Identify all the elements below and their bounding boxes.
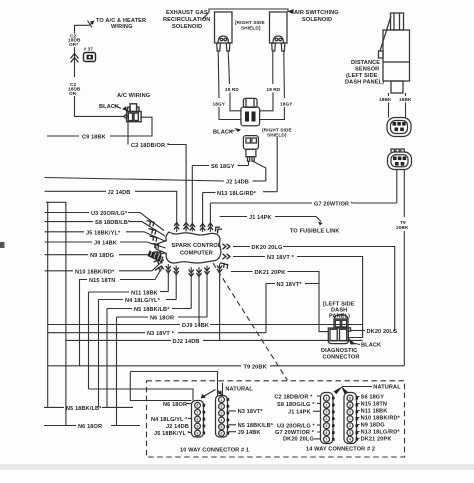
svg-text:1: 1 [349, 417, 351, 421]
svg-text:DISTANCE: DISTANCE [351, 60, 380, 66]
svg-text:N15 18TN: N15 18TN [361, 402, 387, 408]
svg-text:J5 18BK/YL *: J5 18BK/YL * [154, 431, 191, 437]
svg-text:J9 14BK: J9 14BK [238, 430, 261, 436]
svg-text:S6 18GY: S6 18GY [211, 164, 235, 170]
svg-text:DK21 20PK: DK21 20PK [255, 270, 286, 276]
svg-text:SHIELD]: SHIELD] [241, 26, 261, 31]
svg-text:18GY: 18GY [213, 102, 226, 107]
svg-text:DK20 20LG: DK20 20LG [283, 437, 314, 443]
svg-text:N10 18BK/RD*: N10 18BK/RD* [361, 416, 401, 422]
svg-text:(LEFT SIDE: (LEFT SIDE [346, 73, 378, 79]
svg-text:3: 3 [221, 411, 223, 415]
svg-text:WIRING: WIRING [111, 24, 133, 30]
svg-text:2: 2 [221, 405, 223, 409]
svg-text:SOLENOID: SOLENOID [302, 17, 332, 23]
svg-text:J2 14DB: J2 14DB [166, 424, 189, 430]
svg-text:10 WAY CONNECTOR # 1: 10 WAY CONNECTOR # 1 [180, 448, 249, 454]
svg-text:7: 7 [326, 438, 328, 442]
svg-text:COMPUTER: COMPUTER [180, 251, 213, 257]
svg-text:SENSOR: SENSOR [355, 67, 379, 73]
svg-text:N13 18LG/RD*: N13 18LG/RD* [217, 191, 257, 197]
svg-text:S6 18GY: S6 18GY [361, 395, 385, 401]
svg-text:TO FUSIBLE LINK: TO FUSIBLE LINK [290, 229, 340, 235]
svg-text:20BK: 20BK [396, 225, 409, 230]
svg-text:N5 18BK/LB*: N5 18BK/LB* [134, 307, 170, 313]
svg-text:NATURAL: NATURAL [225, 387, 253, 393]
svg-text:N6 18OR: N6 18OR [78, 424, 102, 430]
svg-text:BLACK: BLACK [213, 130, 233, 136]
svg-text:[RIGHT SIDE: [RIGHT SIDE [235, 20, 265, 25]
svg-text:U3 20OR/LG *: U3 20OR/LG * [277, 423, 316, 429]
svg-text:9: 9 [197, 424, 199, 428]
svg-text:DK21 20PK: DK21 20PK [361, 437, 392, 443]
svg-text:2: 2 [349, 424, 351, 428]
svg-text:N3 18VT*: N3 18VT* [277, 282, 303, 288]
svg-text:T9 20BK: T9 20BK [244, 365, 267, 371]
svg-text:S8 18DG/LG *: S8 18DG/LG * [277, 402, 315, 408]
svg-text:OR: OR [69, 91, 77, 96]
svg-text:8: 8 [197, 417, 199, 421]
svg-text:N13 18LG/RD*: N13 18LG/RD* [361, 430, 401, 436]
svg-text:C2 18DB/OR *: C2 18DB/OR * [274, 394, 313, 400]
svg-text:18BK: 18BK [399, 97, 412, 102]
svg-text:N5 18BK/LB*: N5 18BK/LB* [238, 423, 274, 429]
svg-text:DK20 20LG: DK20 20LG [367, 329, 398, 335]
svg-text:EXHAUST GAS: EXHAUST GAS [166, 10, 208, 16]
svg-text:0: 0 [349, 410, 351, 414]
svg-text:CONNECTOR: CONNECTOR [323, 355, 360, 361]
svg-text:N9 18DG: N9 18DG [361, 423, 385, 429]
svg-text:SPARK CONTROL: SPARK CONTROL [172, 243, 222, 249]
svg-text:1: 1 [326, 396, 328, 400]
svg-text:# 37: # 37 [84, 47, 94, 52]
svg-text:U3 20OR/LG*: U3 20OR/LG* [91, 211, 128, 217]
svg-text:G7 20WT/OR *: G7 20WT/OR * [314, 202, 354, 208]
svg-text:N11 18BK: N11 18BK [131, 291, 158, 297]
svg-text:7: 7 [197, 411, 199, 415]
svg-text:6: 6 [221, 432, 223, 436]
svg-text:C9 18BK: C9 18BK [82, 135, 106, 141]
svg-text:J2 14DB: J2 14DB [226, 180, 249, 186]
svg-text:NATURAL: NATURAL [373, 385, 401, 391]
svg-text:18BK: 18BK [379, 97, 392, 102]
svg-text:18 RD: 18 RD [225, 87, 239, 92]
svg-text:AIR SWITCHING: AIR SWITCHING [294, 10, 339, 16]
svg-text:N4 18LG/YL *: N4 18LG/YL * [151, 417, 188, 423]
svg-text:DASH PANEL): DASH PANEL) [345, 80, 384, 86]
svg-text:BLACK: BLACK [99, 104, 119, 110]
svg-text:J9 14BK: J9 14BK [94, 241, 117, 247]
svg-text:1: 1 [221, 398, 223, 402]
svg-text:8: 8 [349, 396, 351, 400]
svg-text:0: 0 [197, 431, 199, 435]
svg-text:N3 18VT*: N3 18VT* [238, 409, 264, 415]
svg-text:18 RD: 18 RD [267, 87, 281, 92]
svg-text:3: 3 [326, 410, 328, 414]
svg-text:G7 20WT/OR *: G7 20WT/OR * [275, 430, 315, 436]
svg-text:2: 2 [326, 403, 328, 407]
svg-text:PANEL): PANEL) [329, 313, 350, 319]
svg-text:OR*: OR* [69, 42, 78, 47]
svg-text:DJ9 14BK: DJ9 14BK [182, 323, 209, 329]
svg-text:N6 18OR: N6 18OR [150, 316, 174, 322]
svg-text:DK20 20LG: DK20 20LG [252, 245, 283, 251]
svg-text:5: 5 [326, 424, 328, 428]
svg-text:18GY: 18GY [280, 102, 293, 107]
svg-text:N10 18BK/RD*: N10 18BK/RD* [75, 269, 115, 275]
svg-text:N9 18DG: N9 18DG [90, 253, 114, 259]
svg-text:SOLENOID: SOLENOID [172, 24, 202, 30]
svg-text:5: 5 [221, 425, 223, 429]
svg-text:N4 18LG/YL*: N4 18LG/YL* [125, 298, 161, 304]
svg-text:9: 9 [349, 403, 351, 407]
svg-text:N3 18VT *: N3 18VT * [267, 255, 295, 261]
svg-text:N6 18OR: N6 18OR [163, 402, 187, 408]
svg-text:4: 4 [349, 438, 351, 442]
svg-text:J1 14PK: J1 14PK [288, 410, 311, 416]
svg-text:J1 14PK: J1 14PK [249, 215, 272, 221]
svg-text:BLACK: BLACK [361, 343, 381, 349]
svg-text:SHIELD): SHIELD) [267, 133, 287, 138]
svg-text:N3 18VT *: N3 18VT * [147, 331, 175, 337]
svg-text:S8 18DB/LB*: S8 18DB/LB* [95, 220, 131, 226]
svg-text:4: 4 [221, 418, 223, 422]
svg-text:6: 6 [197, 404, 199, 408]
svg-text:J5 18BK/YL*: J5 18BK/YL* [86, 230, 121, 236]
svg-text:N11 18BK: N11 18BK [361, 409, 388, 415]
svg-text:DJ2 14DB: DJ2 14DB [173, 339, 200, 345]
svg-text:N5 18BK/LB*: N5 18BK/LB* [66, 406, 102, 412]
svg-text:N15 18TN: N15 18TN [89, 278, 115, 284]
svg-text:A/C WIRING: A/C WIRING [117, 93, 150, 99]
svg-text:DIAGNOSTIC: DIAGNOSTIC [321, 348, 357, 354]
svg-text:14 WAY CONNECTOR # 2: 14 WAY CONNECTOR # 2 [306, 447, 375, 453]
svg-text:C2 18DB/OR *: C2 18DB/OR * [131, 143, 170, 149]
svg-text:3: 3 [349, 431, 351, 435]
svg-text:4: 4 [326, 417, 328, 421]
svg-text:6: 6 [326, 431, 328, 435]
svg-text:J2 14DB: J2 14DB [108, 190, 131, 196]
